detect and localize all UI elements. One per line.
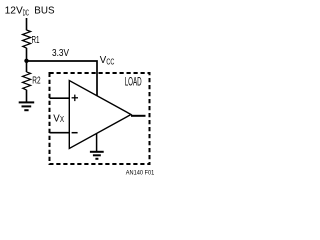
svg-text:AN140 F01: AN140 F01 — [126, 171, 155, 177]
svg-text:X: X — [60, 114, 64, 124]
svg-text:DC: DC — [23, 7, 29, 17]
svg-text:R1: R1 — [32, 35, 40, 46]
svg-text:V: V — [53, 112, 60, 124]
svg-text:LOAD: LOAD — [125, 76, 142, 88]
svg-text:CC: CC — [106, 58, 114, 67]
svg-text:12V: 12V — [5, 6, 24, 17]
svg-text:3.3V: 3.3V — [52, 48, 69, 59]
svg-text:BUS: BUS — [34, 6, 55, 17]
svg-text:R2: R2 — [32, 76, 41, 87]
